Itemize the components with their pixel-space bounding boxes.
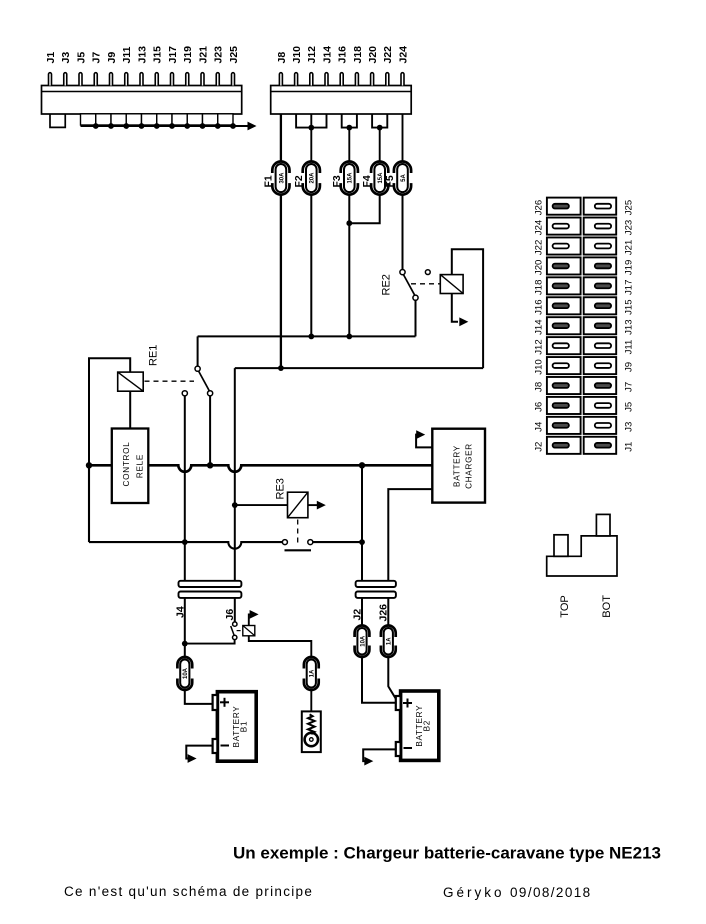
- relay RE1 switch: [182, 336, 213, 396]
- pin J3 of P1: [60, 52, 72, 86]
- svg-text:BATTERY: BATTERY: [453, 445, 462, 487]
- junction J12 bracket: [308, 125, 314, 131]
- fuse F4: [361, 162, 390, 195]
- svg-text:J20: J20: [534, 260, 545, 275]
- svg-text:J18: J18: [534, 280, 545, 295]
- junction F3 / line A: [346, 334, 352, 340]
- svg-text:Géryko: Géryko: [443, 885, 505, 900]
- dashed link breaker: [237, 630, 242, 632]
- pin J8 of P2: [276, 52, 288, 86]
- junction bus / J2 riser: [359, 462, 365, 468]
- relay RE3 coil: [288, 492, 308, 518]
- pin J23 of P1: [213, 46, 225, 86]
- svg-text:B2: B2: [423, 720, 432, 731]
- svg-text:J11: J11: [121, 46, 133, 63]
- junction bus / left riser: [86, 462, 92, 468]
- svg-text:J10: J10: [534, 359, 545, 374]
- svg-text:J25: J25: [623, 200, 634, 215]
- pin J7 of P1: [91, 52, 103, 86]
- wire: RE3 coil right to arrow: [308, 501, 326, 510]
- svg-text:F5: F5: [384, 175, 396, 187]
- junction RE3 coil / J6 riser: [232, 502, 238, 508]
- wire: RE1 coil to CONTROL RELE: [129, 391, 131, 428]
- svg-text:J16: J16: [337, 46, 349, 64]
- svg-text:5A: 5A: [401, 174, 407, 182]
- pin J19 of P1: [182, 46, 194, 86]
- svg-text:J7: J7: [623, 382, 634, 392]
- wire: J4 down to fuse: [184, 598, 186, 657]
- svg-text:J16: J16: [534, 299, 545, 314]
- svg-text:RE2: RE2: [381, 274, 393, 295]
- junction line C / J4 wire: [182, 539, 188, 545]
- dashed link RE3: [297, 520, 299, 547]
- wire: J4 node to manual switch: [185, 640, 235, 644]
- svg-text:Un exemple : Chargeur batterie: Un exemple : Chargeur batterie-caravane …: [233, 844, 661, 863]
- svg-text:J11: J11: [623, 340, 634, 355]
- wire: line B F1 output: [235, 367, 483, 369]
- junction F3 bracket: [346, 125, 352, 131]
- wire: F2 down to line A: [310, 195, 312, 337]
- svg-text:J12: J12: [534, 339, 545, 354]
- junction line C / J2 riser: [359, 539, 365, 545]
- pin J1 of P1: [45, 52, 57, 86]
- svg-text:1A: 1A: [310, 669, 316, 677]
- svg-text:10A: 10A: [360, 635, 366, 647]
- svg-text:BOT: BOT: [601, 595, 613, 618]
- wire: RE2 switch bottom to line A: [415, 300, 417, 336]
- wire: bracket J16-J18 to fuse F3: [342, 114, 357, 162]
- svg-text:RE1: RE1: [148, 345, 160, 366]
- battery B2: [396, 691, 439, 760]
- box CONTROL RELE: [112, 429, 149, 504]
- svg-text:J4: J4: [534, 421, 545, 432]
- wire: RE1 right throw to bus: [209, 396, 211, 465]
- svg-text:09/08/2018: 09/08/2018: [510, 885, 592, 900]
- svg-text:J5: J5: [623, 402, 634, 412]
- battery B1: [213, 692, 257, 762]
- connector P1 body (J1-J25): [42, 86, 242, 115]
- pin J24 of P2: [397, 46, 409, 86]
- svg-text:F1: F1: [263, 175, 275, 187]
- fuse F1: [263, 162, 292, 195]
- svg-text:J25: J25: [228, 46, 240, 64]
- pin J12 of P2: [306, 46, 318, 86]
- pin J18 of P2: [352, 46, 364, 86]
- wire: RE2 coil bottom to arrow: [452, 294, 469, 327]
- svg-text:J22: J22: [534, 240, 545, 255]
- svg-text:Ce n'est qu'un schéma de princ: Ce n'est qu'un schéma de principe: [64, 884, 313, 899]
- wire: J8 to fuse F1: [280, 114, 282, 162]
- svg-text:J2: J2: [534, 442, 545, 452]
- svg-text:J3: J3: [60, 52, 72, 64]
- junction bus / RE1 right throw: [207, 462, 213, 468]
- fuse holder block (top view): [547, 198, 616, 454]
- wire: main bus left segment: [89, 464, 112, 467]
- pin J25 of P1: [228, 46, 240, 86]
- svg-text:J19: J19: [623, 260, 634, 275]
- wire: B2 minus to arrow: [363, 749, 396, 765]
- wire: P1 output bus with arrow: [81, 122, 257, 131]
- svg-text:J12: J12: [306, 46, 318, 64]
- svg-text:J19: J19: [182, 46, 194, 64]
- pin J17 of P1: [167, 46, 179, 86]
- svg-text:J23: J23: [623, 220, 634, 235]
- svg-text:30A: 30A: [279, 172, 285, 184]
- wire: J6 down to switch: [234, 598, 236, 622]
- wire: 10A fuse to B1 plus: [185, 690, 213, 704]
- pin J21 of P1: [197, 46, 209, 86]
- manual switch at J6: [231, 622, 237, 640]
- wire: RE1 coil top loop: [89, 358, 130, 465]
- wire: bracket J10-J12-J14 to fuse F2: [296, 114, 326, 162]
- wire: breaker bottom to 1A fuse: [249, 636, 311, 658]
- connector bars J4/J6: [179, 581, 242, 598]
- wire: F1 down to node: [280, 195, 282, 369]
- pin J20 of P2: [367, 46, 379, 86]
- wire: line A RE1 common to RE2 output: [198, 335, 416, 337]
- fuse holder side profile: [547, 514, 617, 576]
- relay RE2 coil: [440, 275, 463, 294]
- wire: B1 minus to arrow: [186, 746, 212, 763]
- pin J13 of P1: [136, 46, 148, 86]
- wire: main bus with hops to battery charger: [148, 465, 432, 472]
- pin J11 of P1: [121, 46, 133, 85]
- box BATTERY CHARGER: [432, 429, 485, 503]
- junction F2 / line A: [308, 334, 314, 340]
- svg-text:TOP: TOP: [559, 595, 571, 617]
- svg-text:B1: B1: [240, 721, 249, 732]
- wire: left riser corner to RE3 switch: [89, 465, 282, 548]
- svg-text:J15: J15: [152, 46, 164, 64]
- svg-text:J20: J20: [367, 46, 379, 64]
- svg-text:J21: J21: [623, 240, 634, 255]
- svg-text:J14: J14: [321, 46, 333, 64]
- connector bars J2/J26: [356, 581, 396, 598]
- connector P2 body (J8-J24): [271, 86, 412, 115]
- wire: J26 fuse to B2 plus: [388, 657, 396, 699]
- junction F4 bracket: [377, 125, 383, 131]
- svg-text:J1: J1: [45, 52, 57, 64]
- svg-text:J6: J6: [534, 402, 545, 412]
- wire: 1A fuse to key switch: [310, 690, 312, 711]
- svg-text:J13: J13: [136, 46, 148, 64]
- wire: J2 riser: [361, 465, 363, 581]
- wire: J2 fuse to B2 plus: [362, 657, 396, 703]
- svg-text:J8: J8: [534, 382, 545, 392]
- wire: RE3 switch right to J2 riser: [313, 541, 362, 543]
- svg-text:J15: J15: [623, 299, 634, 314]
- svg-text:J8: J8: [276, 52, 288, 64]
- svg-text:J24: J24: [397, 46, 409, 64]
- svg-text:J22: J22: [382, 46, 394, 64]
- junction dots on P1 bus (J7..J25): [93, 123, 236, 129]
- pin J15 of P1: [152, 46, 164, 86]
- svg-text:10A: 10A: [183, 667, 189, 679]
- wire: battery charger AC hook arrow: [416, 430, 432, 447]
- breaker coil at J6: [243, 626, 255, 636]
- junction J4 / switch branch: [182, 641, 188, 647]
- pin J5 of P1: [75, 52, 87, 86]
- fuse 1A at key: [302, 657, 321, 690]
- pin J14 of P2: [321, 46, 333, 86]
- fuse 1A at J26: [379, 598, 398, 657]
- fuse F5: [384, 162, 413, 195]
- svg-text:J18: J18: [352, 46, 364, 64]
- svg-text:F3: F3: [331, 175, 343, 187]
- dashed link RE2: [411, 283, 440, 285]
- ignition key symbol: [302, 711, 321, 752]
- svg-text:15A: 15A: [348, 172, 354, 184]
- svg-text:J9: J9: [623, 362, 634, 372]
- fuse F3: [331, 162, 360, 195]
- svg-text:RE3: RE3: [275, 478, 287, 499]
- svg-text:J9: J9: [106, 52, 118, 64]
- pin J22 of P2: [382, 46, 394, 86]
- svg-text:J21: J21: [197, 46, 209, 64]
- jumper link J1-J3: [50, 114, 65, 127]
- wire: RE2 coil top loop to node line B: [452, 249, 483, 368]
- svg-text:F2: F2: [293, 175, 305, 187]
- wire: bracket J20-J22 to fuse F4: [372, 114, 387, 162]
- wire: RE3 coil left to node: [235, 504, 288, 506]
- fuse F2: [293, 162, 322, 195]
- relay RE3 switch (closed): [282, 540, 312, 551]
- svg-text:J13: J13: [623, 319, 634, 334]
- svg-text:J23: J23: [213, 46, 225, 64]
- svg-text:CHARGER: CHARGER: [465, 443, 474, 489]
- svg-text:J17: J17: [623, 280, 634, 295]
- svg-text:CONTROL: CONTROL: [122, 442, 131, 487]
- connector P1 bottom tabs: [81, 114, 234, 125]
- junction F3/F4: [346, 220, 352, 226]
- pin J10 of P2: [291, 46, 303, 86]
- wire: RE1 left throw down to J4: [184, 396, 186, 581]
- wire: F5 down to RE2 switch: [402, 195, 404, 270]
- relay RE1 coil: [118, 372, 144, 391]
- svg-text:1A: 1A: [387, 637, 393, 645]
- wire: battery charger output to J26: [388, 489, 432, 581]
- wire: F4 joins F3: [349, 195, 379, 224]
- wire: line B left corner down to J6: [234, 368, 236, 581]
- svg-text:J14: J14: [534, 319, 545, 335]
- svg-text:J10: J10: [291, 46, 303, 64]
- svg-text:J7: J7: [91, 52, 103, 64]
- svg-text:J3: J3: [623, 422, 634, 432]
- svg-text:J26: J26: [534, 200, 545, 215]
- svg-text:RELE: RELE: [135, 454, 144, 478]
- fuse 10A at J4: [175, 657, 194, 690]
- svg-text:J17: J17: [167, 46, 179, 64]
- svg-text:20A: 20A: [310, 172, 316, 184]
- dashed link RE1: [145, 380, 195, 382]
- fuse 10A at J2: [352, 598, 371, 657]
- wire: breaker top arrow: [249, 610, 259, 626]
- wire: J24 to fuse F5: [402, 114, 404, 162]
- wire: F3 down to line A: [348, 195, 350, 337]
- pin J16 of P2: [337, 46, 349, 86]
- relay RE2 switch: [400, 270, 430, 301]
- svg-text:F4: F4: [361, 175, 373, 187]
- svg-text:J5: J5: [75, 52, 87, 64]
- junction F1 / line B: [278, 365, 284, 371]
- svg-text:J1: J1: [623, 442, 634, 452]
- svg-text:J24: J24: [534, 219, 545, 235]
- pin J9 of P1: [106, 52, 118, 86]
